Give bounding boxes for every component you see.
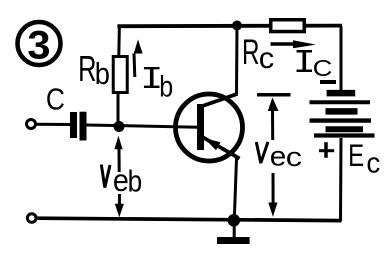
svg-text:3: 3 [27,22,50,67]
svg-text:R: R [242,34,260,72]
svg-text:e: e [113,164,129,199]
svg-text:b: b [159,69,173,103]
svg-text:b: b [95,58,110,92]
svg-text:R: R [78,48,96,89]
svg-text:c: c [259,43,274,75]
svg-text:c: c [286,143,302,172]
svg-text:c: c [366,147,380,180]
svg-text:e: e [270,141,287,172]
svg-text:E: E [348,137,364,173]
svg-text:b: b [128,164,143,198]
svg-text:C: C [46,83,65,117]
svg-text:C: C [313,56,333,81]
